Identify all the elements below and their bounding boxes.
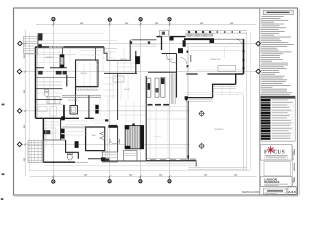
title block right margin strip [291, 145, 293, 187]
east wall window jamb [187, 156, 189, 158]
bottom wall mid segment [88, 159, 146, 161]
great room hearth [218, 65, 236, 71]
foyer south wall [162, 53, 177, 55]
great room top wall glazed [186, 39, 244, 44]
title block vertical text [292, 150, 295, 183]
foyer closet black [169, 37, 173, 41]
hall south wall [148, 71, 177, 73]
sheet border frame [14, 8, 298, 195]
south glazed wall [146, 159, 196, 161]
nook north wall [104, 72, 137, 74]
gallery wall vertical [176, 54, 178, 98]
porch toilet [67, 153, 72, 160]
foyer west wall [161, 37, 163, 50]
right wall jog [236, 74, 244, 84]
terrace step lines [186, 86, 235, 101]
sheet number box A-2.0 [288, 187, 296, 194]
rear stoop B [124, 151, 138, 161]
foyer door arc 1 [166, 54, 176, 64]
chimney [160, 30, 169, 36]
kitchen east wall [145, 76, 147, 161]
right grid diamonds [256, 41, 261, 73]
section marker circle lower [198, 143, 205, 150]
right strip tick marks [293, 149, 296, 182]
section marker circle upper [198, 110, 205, 117]
left exterior wall inner face [36, 48, 38, 118]
central vertical wall upper light [116, 60, 118, 73]
master bedroom [86, 127, 105, 151]
bottom grid bubbles [52, 176, 171, 183]
fireplace black great room [210, 39, 215, 43]
right exterior wall [243, 39, 245, 74]
right wall window jambs [243, 50, 245, 69]
sitting room furniture [46, 128, 56, 140]
svg-text:MAIN FLOOR: MAIN FLOOR [242, 190, 259, 194]
svg-text:BED: BED [92, 135, 97, 137]
svg-text:RESIDENCE: RESIDENCE [264, 180, 279, 184]
svg-text:CUS: CUS [273, 149, 285, 155]
roof hatch band [186, 34, 213, 37]
stamp box [264, 162, 291, 176]
svg-text:A-2.0: A-2.0 [288, 190, 296, 194]
pantry corner black [105, 119, 108, 121]
project name LANSON RESIDENCE [264, 177, 279, 184]
top-left window band [49, 46, 64, 48]
title block divider line [259, 8, 261, 195]
foyer door arc 2 [180, 58, 186, 64]
back stair stripes [170, 74, 175, 105]
shower [47, 97, 60, 104]
toilet [44, 90, 49, 97]
garage interior line [37, 54, 76, 56]
project address lines [264, 184, 288, 186]
faint interior detail lines [36, 47, 243, 159]
great room column [190, 55, 192, 62]
corner black at SE of gallery [185, 96, 188, 99]
FOCUS logo tagline [265, 154, 288, 157]
vertical grid lines [53, 22, 169, 180]
kitchen island [70, 106, 78, 115]
east wall inner line [185, 101, 187, 161]
svg-text:FOYER: FOYER [166, 59, 173, 61]
master hall wall light [62, 126, 86, 128]
hall wall x88 [88, 96, 90, 119]
svg-text:MSTR: MSTR [45, 131, 51, 133]
great room south wall [186, 73, 235, 75]
svg-text:DINING: DINING [120, 59, 127, 61]
gallery east jambs [187, 51, 189, 68]
great room NW corner black [183, 40, 186, 47]
powder room fixture black [178, 48, 183, 53]
svg-text:TERRACE: TERRACE [214, 128, 224, 131]
central vertical wall [117, 73, 119, 152]
kitchen south cap black [61, 116, 65, 120]
south-east corner [195, 161, 197, 167]
left exterior wall [35, 47, 37, 118]
garage south wall [36, 67, 67, 69]
foyer top wall [157, 36, 186, 38]
FOCUS logo red star [267, 147, 274, 154]
terrace step wall upper [213, 84, 236, 97]
closet wall [36, 77, 77, 79]
bbq black [75, 141, 79, 148]
stair block [125, 124, 144, 150]
west hall wall [67, 75, 76, 105]
corner post black [38, 44, 42, 48]
sitting room fireplace black [44, 130, 51, 134]
partition above media room [95, 47, 97, 60]
sitting room east wall [60, 119, 62, 140]
entry porch steps [130, 45, 156, 47]
great room west line [187, 44, 189, 97]
sheet bottom edge shadow [14, 195, 298, 197]
kitchen counter band [62, 95, 101, 97]
kitchen west counter [63, 105, 65, 118]
bottom wall master suite [43, 161, 75, 163]
elevator shaft [60, 55, 64, 67]
bottom-left paper mark [1, 198, 4, 200]
title block general notes text [261, 16, 294, 95]
project info box [260, 177, 292, 187]
butler pantry cabinets [147, 77, 165, 97]
bottom wall porch segment [75, 161, 88, 163]
dimension ticks and labels [24, 23, 238, 178]
west wall lower [42, 118, 44, 162]
nook buffet [113, 76, 124, 82]
dining room faint lines [147, 106, 187, 119]
bath north wall [36, 88, 63, 90]
top-left exterior wall [36, 46, 105, 48]
FOCUS logo wordmark [264, 149, 285, 155]
dining fireplace black [135, 56, 140, 64]
french door arcs [110, 139, 120, 144]
door arc at great room NE [237, 40, 242, 45]
top eave line [43, 39, 117, 41]
sheet info divider [260, 185, 296, 187]
kitchen south wall [36, 117, 94, 119]
media room [76, 60, 99, 87]
sheet right edge shadow [298, 9, 300, 196]
terrace outline [188, 95, 247, 169]
double ovens [95, 105, 98, 114]
dining east wall [135, 51, 137, 73]
left paper registration mark upper [2, 104, 5, 106]
dimension lines [25, 25, 256, 177]
title block legend table with black swatches [261, 96, 296, 141]
svg-text:GREAT RM: GREAT RM [210, 58, 221, 61]
top grid bubbles [52, 18, 171, 25]
svg-text:NOOK: NOOK [124, 89, 131, 91]
room labels [45, 56, 224, 137]
entry porch columns [130, 41, 150, 43]
horizontal grid lines [22, 44, 257, 145]
upper-left deck steps [24, 33, 105, 54]
east wall of bedroom wing [187, 101, 189, 161]
garage partition [61, 47, 63, 55]
left paper registration mark lower [2, 173, 5, 175]
pergola beams [186, 31, 248, 33]
lower-left deck steps [28, 140, 43, 162]
top wall inner face [37, 48, 117, 50]
title block notes header box [263, 10, 293, 14]
closet fixtures [38, 71, 67, 75]
svg-text:GARAGE: GARAGE [45, 56, 54, 59]
laundry counters [38, 107, 57, 117]
media room lower hatch [76, 88, 99, 90]
entry court stepped wall [104, 40, 130, 61]
entry recess wall [132, 39, 157, 41]
rear stoop A [102, 152, 117, 162]
svg-text:MEDIA: MEDIA [81, 72, 88, 75]
svg-text:KITCHEN: KITCHEN [68, 100, 77, 102]
left grid diamonds [17, 41, 22, 146]
hall verticals [105, 127, 107, 158]
mud room south wall dashed [148, 104, 170, 106]
bath south wall [36, 98, 63, 100]
FOCUS logo box [260, 145, 292, 160]
great room top wall [184, 38, 214, 40]
closet line [36, 103, 64, 105]
lower right wall corner [186, 98, 212, 101]
washer dryer blacks [61, 129, 65, 139]
drawing data box [263, 188, 286, 194]
window seat black [108, 125, 117, 128]
FOCUS logo address box [265, 157, 288, 160]
porch room walls [66, 140, 79, 159]
patio lines below south wall [45, 164, 197, 166]
window marker black [101, 157, 105, 161]
closet divider wall [43, 139, 65, 141]
